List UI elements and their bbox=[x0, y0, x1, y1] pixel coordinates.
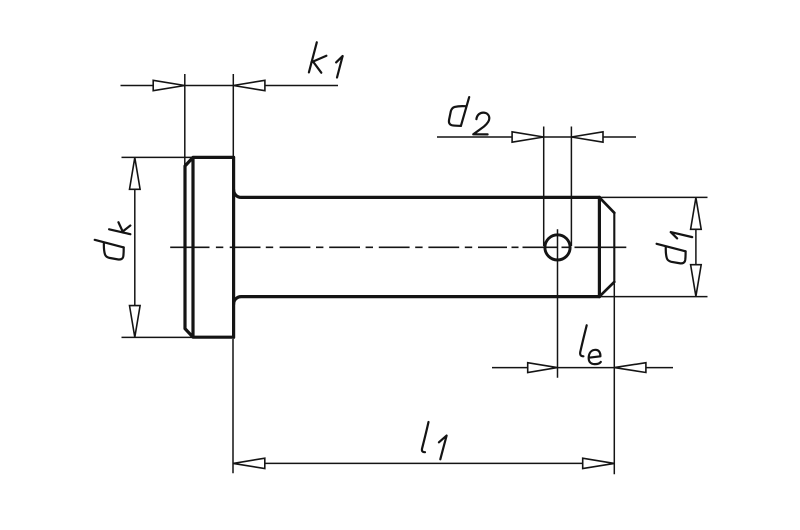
main centerline (dash-dot) bbox=[170, 246, 626, 248]
label d2 bbox=[449, 97, 489, 134]
dk dimension line bbox=[134, 189, 136, 306]
arrow d2 right bbox=[571, 132, 603, 142]
label dk (rotated) bbox=[94, 222, 131, 260]
cotter-pin hole bbox=[545, 235, 570, 260]
d2 extension line right bbox=[570, 127, 572, 247]
head right face bbox=[232, 157, 235, 337]
d2 extension line left bbox=[543, 127, 545, 247]
head outline (top edge, left chamfers, left face, bottom edge) bbox=[185, 157, 234, 337]
l1 dimension line bbox=[265, 462, 583, 464]
arrow l1 left bbox=[233, 458, 265, 468]
arrow l1 right bbox=[583, 458, 615, 468]
head chamfer edge line bbox=[191, 158, 194, 336]
arrow dk top bbox=[130, 158, 141, 190]
k1 extension line left bbox=[184, 74, 186, 166]
end chamfer bottom bbox=[599, 282, 614, 297]
end face bbox=[613, 213, 615, 282]
label le bbox=[580, 325, 601, 364]
end chamfer start edge bbox=[598, 197, 601, 296]
d1 extension line bottom bbox=[601, 296, 708, 298]
arrow d1 bottom bbox=[691, 265, 702, 297]
label l1 bbox=[422, 422, 447, 459]
pin body outline bbox=[185, 157, 614, 337]
dk extension line bottom bbox=[122, 336, 194, 338]
arrow le left bbox=[528, 363, 558, 373]
arrow k1 right bbox=[233, 80, 265, 90]
dk extension line top bbox=[122, 156, 194, 158]
arrow d2 left bbox=[512, 132, 544, 142]
l1 left extension line bbox=[232, 339, 234, 473]
d2 dimension line bbox=[437, 136, 636, 138]
k1 dimension line bbox=[121, 85, 339, 87]
shaft bottom edge with fillet bbox=[234, 297, 600, 305]
dimension arrowheads (open triangles) bbox=[130, 80, 702, 468]
label k1 bbox=[309, 42, 343, 77]
arrow le right bbox=[614, 363, 646, 373]
le / l1 right extension line bbox=[613, 284, 615, 475]
arrow d1 top bbox=[691, 198, 702, 230]
arrow dk bottom bbox=[130, 306, 141, 338]
end chamfer top bbox=[599, 197, 614, 212]
shaft top edge with fillet bbox=[234, 190, 600, 198]
d1 dimension line bbox=[695, 229, 697, 265]
hole vertical centerline / le extension line bbox=[557, 229, 559, 377]
d1 extension line top bbox=[601, 196, 708, 198]
k1 extension line right bbox=[232, 74, 234, 156]
arrow k1 left bbox=[153, 80, 185, 90]
label d1 (rotated) bbox=[656, 232, 693, 265]
le dimension line bbox=[492, 367, 673, 369]
